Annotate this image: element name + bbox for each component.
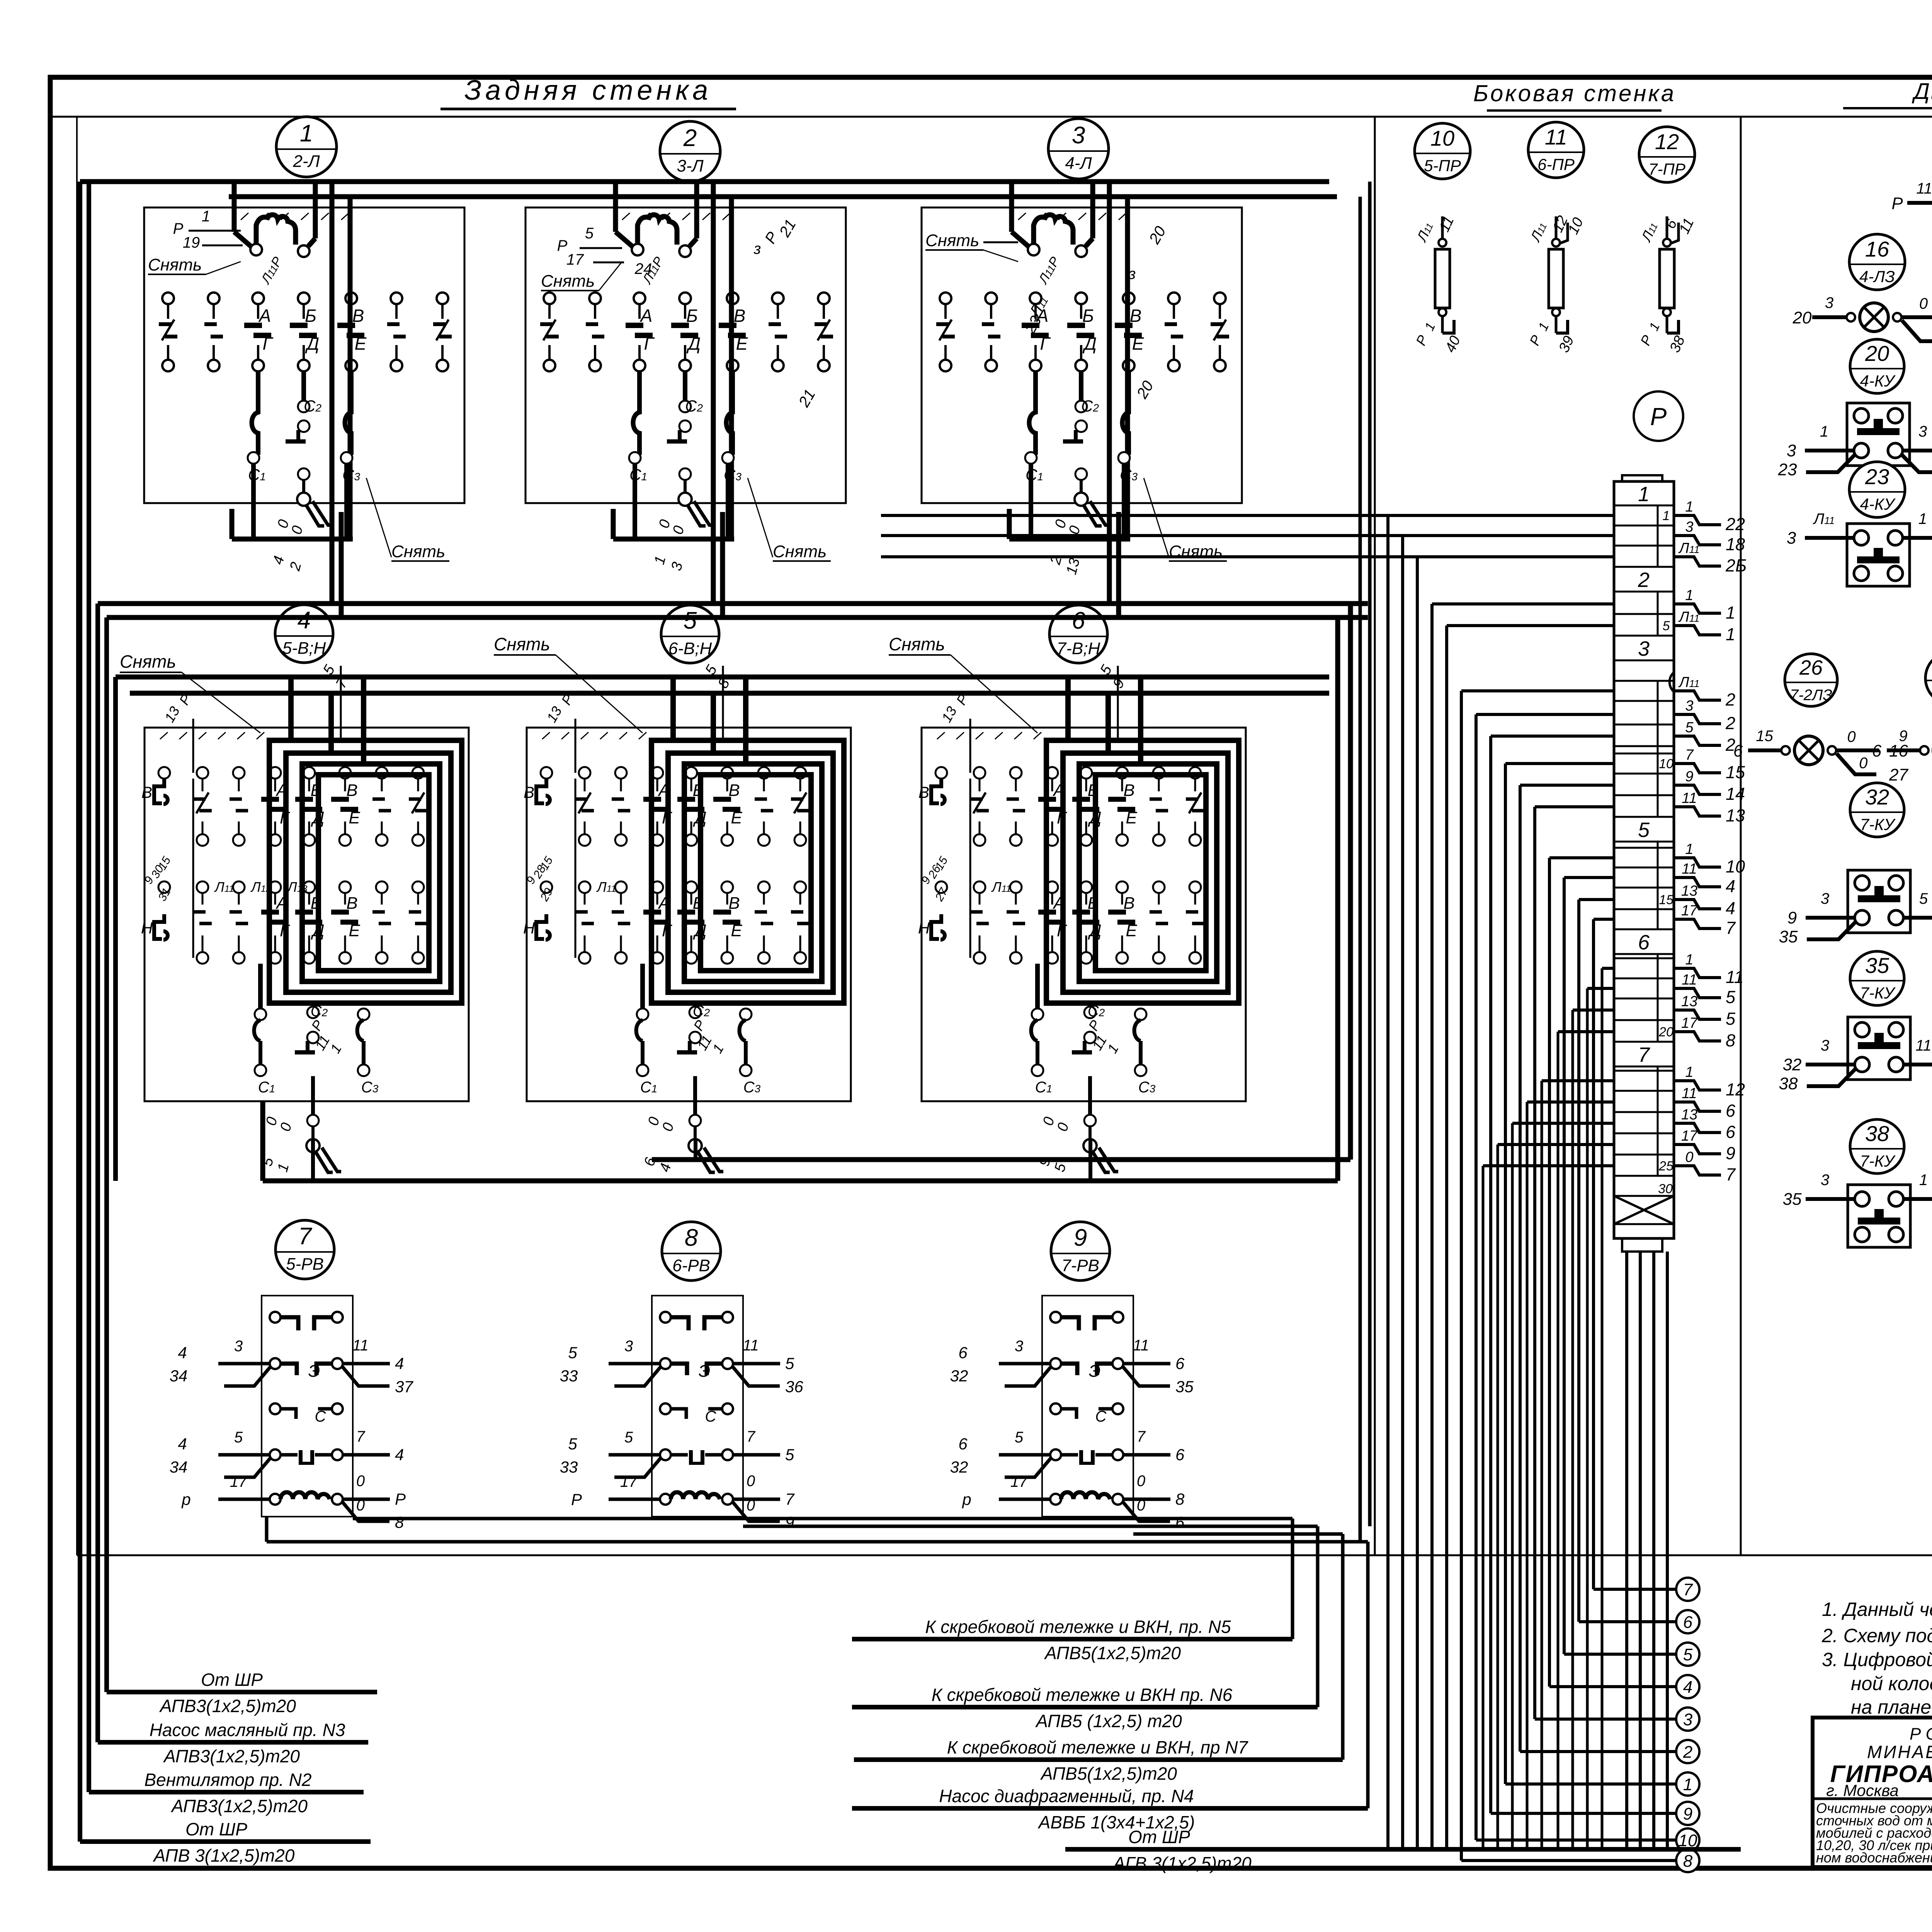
svg-text:Снять: Снять (889, 634, 945, 654)
svg-text:22: 22 (1725, 514, 1745, 534)
svg-text:27: 27 (1889, 765, 1908, 784)
svg-text:20: 20 (1865, 341, 1889, 366)
svg-text:3: 3 (1821, 1172, 1829, 1189)
device circle 23 (1849, 462, 1905, 517)
svg-text:6: 6 (958, 1344, 968, 1362)
signal lamp 26 (1733, 728, 1909, 784)
cable От ШР (2) (80, 1819, 371, 1866)
svg-text:35: 35 (1865, 953, 1889, 978)
device circle 12 (1639, 127, 1695, 182)
svg-text:5: 5 (568, 1435, 577, 1453)
svg-text:9: 9 (1074, 1225, 1087, 1251)
horizontal bus wire row2 top E (116, 675, 1329, 680)
svg-text:Р С Ф С Р: Р С Ф С Р (1910, 1725, 1932, 1743)
terminal strip output wires (1658, 499, 1747, 1184)
svg-text:АГВ 3(1х2,5)т20: АГВ 3(1х2,5)т20 (1112, 1853, 1252, 1873)
control button 20 (1778, 403, 1932, 479)
device circle 9 (1051, 1222, 1110, 1281)
svg-text:АПВ3(1х2,5)т20: АПВ3(1х2,5)т20 (159, 1696, 296, 1716)
cable К скребковой тележке пр.N6 (852, 1685, 1318, 1731)
svg-text:В: В (1123, 894, 1134, 913)
svg-text:4-КУ: 4-КУ (1860, 495, 1896, 513)
svg-text:9: 9 (1683, 1804, 1692, 1823)
svg-text:3: 3 (1821, 1037, 1829, 1054)
signal lamp 16 (1793, 294, 1932, 351)
svg-text:17: 17 (1681, 903, 1698, 919)
svg-text:1: 1 (1726, 603, 1735, 622)
svg-text:Е: Е (355, 333, 367, 354)
long vertical wires right side of back wall (1360, 182, 1370, 1542)
svg-text:11: 11 (1545, 125, 1567, 149)
svg-text:Е: Е (1132, 333, 1145, 354)
svg-text:11: 11 (1682, 972, 1697, 988)
svg-text:0: 0 (1847, 728, 1855, 745)
svg-text:36: 36 (785, 1378, 803, 1396)
svg-text:Э: Э (699, 1362, 711, 1381)
horizontal bus wire between rows D (107, 615, 1368, 620)
svg-text:12: 12 (1655, 129, 1679, 154)
svg-text:8: 8 (1175, 1490, 1185, 1508)
svg-text:3: 3 (1918, 423, 1927, 440)
svg-text:6-РВ: 6-РВ (672, 1256, 710, 1275)
svg-text:3: 3 (234, 1338, 243, 1355)
svg-text:С: С (1095, 1408, 1107, 1425)
svg-text:В: В (346, 781, 357, 800)
device circle 32 (1850, 783, 1904, 837)
svg-text:АПВ3(1х2,5)т20: АПВ3(1х2,5)т20 (170, 1796, 308, 1816)
svg-text:0: 0 (356, 1497, 365, 1514)
svg-text:17: 17 (1681, 1128, 1698, 1144)
svg-text:Д: Д (305, 333, 319, 354)
svg-text:АПВ5(1х2,5)т20: АПВ5(1х2,5)т20 (1040, 1764, 1177, 1784)
divider back-wall / side-wall (1374, 117, 1376, 1555)
svg-text:2: 2 (1638, 568, 1650, 592)
svg-text:6-В;Н: 6-В;Н (668, 639, 712, 658)
svg-text:6: 6 (1175, 1513, 1185, 1531)
svg-text:5: 5 (684, 607, 697, 634)
svg-text:34: 34 (170, 1458, 188, 1476)
svg-text:3. Цифровой индекс у назван: 3. Цифровой индекс у названия аппарата и… (1822, 1649, 1932, 1670)
svg-text:В: В (1123, 781, 1134, 800)
svg-text:18: 18 (1726, 534, 1745, 554)
svg-text:ном водоснабжении: ном водоснабжении (1816, 1850, 1932, 1866)
svg-text:5: 5 (1638, 818, 1650, 842)
svg-text:7-КУ: 7-КУ (1860, 984, 1896, 1002)
svg-text:Е: Е (1126, 808, 1137, 827)
reversing starter block 5 (6-В;Н) wiring (523, 662, 851, 1174)
svg-text:3: 3 (1825, 294, 1833, 311)
svg-text:4-ЛЗ: 4-ЛЗ (1859, 267, 1895, 286)
svg-text:6: 6 (1726, 1101, 1736, 1121)
title block frame (1813, 1718, 1932, 1867)
svg-text:11: 11 (1682, 1085, 1697, 1102)
svg-text:20: 20 (1793, 308, 1812, 327)
svg-text:В: В (728, 781, 740, 800)
svg-text:1: 1 (1685, 952, 1693, 968)
svg-text:5: 5 (1919, 890, 1928, 907)
svg-text:15: 15 (1659, 893, 1673, 907)
device circle 11 (1528, 122, 1584, 178)
svg-text:10: 10 (1726, 857, 1745, 876)
wire verticals from strip rows down (1388, 515, 1614, 1849)
svg-text:Б: Б (1082, 306, 1094, 326)
svg-text:33: 33 (560, 1367, 578, 1385)
svg-text:Вентилятор пр. N2: Вентилятор пр. N2 (144, 1770, 311, 1790)
svg-text:7: 7 (1683, 1580, 1693, 1599)
svg-text:11: 11 (1726, 967, 1744, 987)
outgoing cable circles (1676, 1578, 1699, 1872)
svg-text:В: В (734, 306, 746, 326)
svg-text:К скребковой тележке и ВКН,: К скребковой тележке и ВКН, пр N7 (947, 1737, 1248, 1757)
svg-text:32: 32 (1865, 785, 1889, 809)
svg-text:17: 17 (230, 1473, 248, 1490)
bottom collector wires to cable group 1 (353, 1519, 1293, 1639)
notes text (1821, 1599, 1932, 1718)
svg-text:1. Данный чертеж является з: 1. Данный чертеж является заданием завод… (1822, 1599, 1932, 1620)
svg-text:4: 4 (395, 1354, 404, 1372)
reversing starter block 6 (7-В;Н) wiring Снять label (889, 634, 1037, 733)
svg-text:1: 1 (1638, 483, 1650, 506)
svg-text:7: 7 (356, 1428, 366, 1445)
device circle 16 (1849, 234, 1905, 290)
svg-text:2. Схему подключения см. лис: 2. Схему подключения см. лист ЭЛ-2. (1821, 1625, 1932, 1646)
svg-text:7-1ЛЗ: 7-1ЛЗ (1930, 685, 1932, 702)
horizontal bus wire mid H (263, 618, 1338, 1181)
svg-text:3: 3 (1638, 637, 1650, 660)
svg-text:Д: Д (686, 333, 701, 354)
svg-text:В: В (524, 783, 534, 801)
svg-text:5: 5 (585, 225, 594, 242)
svg-text:0: 0 (747, 1473, 755, 1490)
svg-text:11: 11 (743, 1337, 759, 1354)
svg-text:3: 3 (1683, 1710, 1693, 1729)
svg-text:Снять: Снять (391, 542, 445, 561)
svg-text:16: 16 (1865, 237, 1889, 261)
svg-text:17: 17 (620, 1473, 638, 1490)
svg-text:38: 38 (1779, 1074, 1798, 1093)
svg-text:33: 33 (560, 1458, 578, 1476)
starter block 1 (2-Л) wiring (144, 182, 464, 573)
svg-text:11: 11 (1915, 1037, 1932, 1054)
left inner border line (76, 117, 78, 1555)
svg-text:Насос масляный пр. N3: Насос масляный пр. N3 (150, 1720, 345, 1740)
svg-text:9: 9 (785, 1513, 794, 1531)
svg-text:20: 20 (1658, 1025, 1673, 1039)
wires strip group7 down (1483, 1081, 1614, 1849)
svg-text:0: 0 (1137, 1473, 1145, 1490)
signal lamp 13 (1891, 180, 1932, 237)
svg-text:Р: Р (1891, 194, 1903, 213)
horizontal bus wire between rows C (98, 601, 1368, 606)
time relay block 9 (7-РВ) wiring (950, 1296, 1194, 1531)
svg-text:От ШР: От ШР (185, 1819, 247, 1839)
svg-text:Г: Г (1040, 333, 1051, 354)
svg-text:МИНАВТОТРАНС: МИНАВТОТРАНС (1867, 1742, 1932, 1762)
svg-text:7: 7 (747, 1428, 756, 1445)
svg-text:0: 0 (356, 1473, 365, 1490)
device circle 20 (1850, 339, 1904, 393)
bottom collector wires to cable group 3 (1133, 1534, 1343, 1760)
svg-text:К скребковой тележке и ВКН,: К скребковой тележке и ВКН, пр. N5 (925, 1617, 1231, 1637)
svg-text:13: 13 (1681, 993, 1697, 1010)
svg-text:От ШР: От ШР (1128, 1827, 1190, 1847)
svg-text:В: В (352, 306, 364, 326)
svg-text:р: р (961, 1490, 971, 1509)
svg-text:7: 7 (1726, 918, 1736, 938)
svg-text:7: 7 (1137, 1428, 1146, 1445)
reversing starter block 6 (7-В;Н) wiring (918, 662, 1246, 1174)
svg-text:1: 1 (202, 208, 210, 225)
svg-text:Р: Р (173, 220, 184, 237)
svg-text:11: 11 (352, 1337, 369, 1354)
svg-text:24: 24 (634, 260, 652, 277)
control button 38 (1783, 1172, 1932, 1247)
svg-text:Р: Р (1650, 403, 1667, 430)
svg-text:А: А (639, 306, 653, 326)
svg-text:26: 26 (1799, 656, 1823, 679)
svg-text:7-РВ: 7-РВ (1061, 1256, 1099, 1275)
svg-text:Р: Р (571, 1490, 582, 1509)
svg-text:17: 17 (1010, 1473, 1028, 1490)
svg-text:5: 5 (785, 1354, 794, 1372)
svg-text:11: 11 (1916, 180, 1932, 197)
svg-text:7: 7 (1726, 1165, 1736, 1184)
terminal strip rail (1614, 475, 1674, 1252)
svg-text:Снять: Снять (120, 651, 176, 672)
svg-text:2: 2 (1683, 1743, 1692, 1762)
svg-text:1: 1 (1685, 841, 1693, 857)
svg-text:5: 5 (1726, 1009, 1736, 1029)
svg-text:2: 2 (1725, 690, 1735, 709)
svg-text:1: 1 (1820, 423, 1828, 440)
starter block 2 (3-Л) wiring (526, 182, 846, 573)
device circle 26 (1785, 654, 1837, 706)
fuse 11 (6-ПР) (1526, 213, 1587, 355)
svg-text:А: А (258, 306, 271, 326)
svg-text:8: 8 (1726, 1031, 1735, 1050)
cable От ШР (3) (1065, 1827, 1741, 1873)
svg-text:4: 4 (1683, 1678, 1692, 1697)
device circle 1 (276, 117, 337, 177)
svg-text:8: 8 (685, 1225, 698, 1251)
svg-text:г. Москва: г. Москва (1826, 1781, 1899, 1799)
svg-text:4: 4 (298, 607, 311, 634)
device circle 6 (1049, 605, 1107, 663)
svg-text:2: 2 (683, 125, 697, 151)
svg-text:6: 6 (1872, 742, 1882, 760)
svg-text:5: 5 (234, 1429, 243, 1446)
svg-text:17: 17 (1681, 1015, 1698, 1031)
svg-text:3: 3 (624, 1338, 633, 1355)
svg-text:7: 7 (1638, 1043, 1650, 1066)
svg-text:10: 10 (1430, 126, 1454, 150)
svg-text:з: з (1128, 265, 1136, 282)
svg-text:1: 1 (300, 120, 313, 147)
svg-text:0: 0 (1137, 1497, 1145, 1514)
svg-text:Насос диафрагменный, пр. N4: Насос диафрагменный, пр. N4 (939, 1786, 1194, 1806)
svg-text:3: 3 (1685, 698, 1693, 714)
svg-text:3: 3 (1015, 1338, 1023, 1355)
time relay block 8 (6-РВ) wiring (560, 1296, 804, 1531)
svg-text:на плане.: на плане. (1851, 1696, 1932, 1718)
signal lamp 27 (1872, 728, 1932, 784)
svg-text:Снять: Снять (541, 272, 595, 291)
svg-text:2: 2 (1725, 713, 1735, 733)
svg-text:5: 5 (1685, 719, 1694, 736)
svg-text:13: 13 (1681, 883, 1697, 899)
svg-text:6: 6 (1072, 607, 1085, 634)
svg-text:5: 5 (1663, 619, 1670, 633)
svg-text:9: 9 (1787, 908, 1797, 927)
svg-text:1: 1 (1726, 624, 1735, 644)
svg-text:5: 5 (624, 1429, 633, 1446)
starter block 3 (4-Л) wiring (922, 182, 1242, 577)
control button 23 (1787, 510, 1932, 586)
reversing starter block 5 (6-В;Н) wiring Снять label (494, 634, 643, 733)
svg-text:Е: Е (1126, 921, 1137, 940)
horizontal bus wire row2 top F (130, 691, 1329, 696)
svg-text:8: 8 (395, 1513, 404, 1531)
riser wires from row2 blocks to mid bus (263, 1101, 1090, 1181)
horizontal bus wire row1 top A (80, 179, 1329, 184)
svg-text:32: 32 (1783, 1055, 1802, 1074)
svg-text:з: з (753, 240, 761, 257)
svg-text:34: 34 (170, 1367, 188, 1385)
svg-text:9: 9 (1726, 1143, 1735, 1163)
device circle 10 (1415, 123, 1470, 179)
fuse 12 (7-ПР) (1637, 216, 1697, 355)
svg-text:1: 1 (1685, 587, 1693, 604)
svg-text:Снять: Снять (148, 255, 202, 274)
cable К скребковой тележке пр.N5 (852, 1617, 1293, 1663)
svg-text:Б: Б (686, 306, 698, 326)
cable От ШР (1) (107, 1670, 377, 1716)
svg-text:5: 5 (1683, 1645, 1693, 1664)
svg-text:Н: Н (523, 919, 535, 937)
svg-text:1: 1 (1683, 1775, 1692, 1794)
svg-text:5-ПР: 5-ПР (1424, 156, 1461, 175)
vertical riser wires under row1 blocks (332, 512, 1119, 617)
svg-text:1: 1 (1663, 509, 1670, 523)
svg-text:2Б: 2Б (1725, 556, 1747, 575)
device circle 8 (662, 1222, 721, 1281)
svg-text:2-Л: 2-Л (293, 152, 320, 171)
svg-text:11: 11 (1682, 790, 1697, 806)
svg-text:5-В;Н: 5-В;Н (282, 639, 326, 658)
svg-text:6-ПР: 6-ПР (1537, 155, 1575, 173)
svg-text:Е: Е (736, 333, 748, 354)
svg-text:0: 0 (1919, 295, 1928, 312)
svg-text:11: 11 (1682, 861, 1697, 877)
svg-text:3: 3 (1072, 122, 1085, 149)
svg-text:1: 1 (1918, 510, 1927, 527)
svg-text:0: 0 (1859, 755, 1867, 772)
title block organization (1826, 1725, 1932, 1799)
svg-text:9: 9 (1685, 769, 1693, 785)
svg-text:6: 6 (1175, 1354, 1185, 1372)
svg-text:4: 4 (178, 1344, 187, 1362)
svg-text:7-ПР: 7-ПР (1648, 160, 1685, 178)
node P circle (1634, 391, 1683, 441)
svg-text:13: 13 (1681, 1107, 1697, 1123)
svg-text:Э: Э (308, 1362, 320, 1381)
svg-text:5: 5 (1015, 1429, 1024, 1446)
svg-text:8: 8 (1683, 1852, 1693, 1871)
svg-text:Р: Р (395, 1490, 406, 1508)
svg-text:6: 6 (1733, 742, 1743, 760)
bottom collector wires to cable group 4 (267, 1517, 1368, 1808)
svg-text:7: 7 (1685, 747, 1694, 763)
svg-text:7: 7 (785, 1490, 795, 1508)
svg-text:Е: Е (731, 808, 742, 827)
svg-text:23: 23 (1865, 464, 1889, 489)
reversing starter block 4 (5-В;Н) wiring (141, 662, 469, 1174)
svg-text:В: В (346, 894, 357, 913)
device circle 27 (1925, 652, 1932, 704)
vertical supply bus wires (left edge) (80, 182, 116, 1842)
cable Вентилятор пр.N2 (89, 1770, 364, 1816)
svg-text:37: 37 (395, 1378, 413, 1396)
cable Насос диафрагменный пр.N4 (852, 1786, 1368, 1832)
svg-text:19: 19 (183, 234, 200, 251)
device circle 35 (1850, 951, 1904, 1005)
svg-text:Е: Е (349, 808, 360, 827)
svg-text:Снять: Снять (494, 634, 550, 654)
svg-text:Е: Е (731, 921, 742, 940)
svg-text:р: р (181, 1490, 190, 1509)
svg-text:5: 5 (785, 1446, 794, 1464)
svg-text:6: 6 (1175, 1446, 1185, 1464)
svg-text:7-КУ: 7-КУ (1860, 1152, 1896, 1170)
svg-text:3: 3 (1821, 890, 1829, 907)
content bottom border line (77, 1554, 1932, 1556)
svg-text:4: 4 (1726, 876, 1735, 896)
svg-text:С: С (315, 1408, 327, 1425)
svg-text:15: 15 (1756, 728, 1773, 745)
control button 32 (1779, 870, 1932, 946)
svg-text:15: 15 (1726, 762, 1745, 782)
svg-text:7-В;Н: 7-В;Н (1057, 639, 1100, 658)
device circle 38 (1850, 1119, 1904, 1173)
svg-text:0: 0 (1685, 1149, 1693, 1165)
cable Насос масляный пр.N3 (98, 1720, 368, 1766)
svg-text:3-Л: 3-Л (677, 156, 704, 175)
device circle 4 (275, 605, 333, 663)
svg-text:11: 11 (1133, 1337, 1149, 1354)
svg-text:АПВ5(1х2,5)т20: АПВ5(1х2,5)т20 (1044, 1643, 1181, 1663)
svg-text:3: 3 (1787, 441, 1796, 460)
content top border line (50, 116, 1932, 118)
wires from strip rows to outgoing cable circles (1461, 691, 1676, 1861)
svg-text:4-Л: 4-Л (1065, 154, 1092, 173)
svg-text:Э: Э (1089, 1362, 1101, 1381)
wires strip group6 down (1558, 968, 1614, 1849)
svg-text:1: 1 (1919, 1172, 1928, 1189)
svg-text:13: 13 (1726, 806, 1745, 825)
svg-text:6: 6 (958, 1435, 968, 1453)
svg-text:5: 5 (568, 1344, 577, 1362)
svg-text:12: 12 (1726, 1080, 1745, 1099)
svg-text:35: 35 (1783, 1190, 1802, 1209)
svg-text:4: 4 (178, 1435, 187, 1453)
svg-text:7-КУ: 7-КУ (1860, 815, 1896, 833)
svg-text:6: 6 (1726, 1122, 1736, 1142)
device circle 7 (276, 1220, 334, 1279)
svg-text:Б: Б (305, 306, 316, 326)
svg-text:От ШР: От ШР (201, 1670, 263, 1690)
svg-text:АПВ5 (1х2,5) т20: АПВ5 (1х2,5) т20 (1035, 1711, 1182, 1731)
svg-text:35: 35 (1175, 1378, 1194, 1396)
